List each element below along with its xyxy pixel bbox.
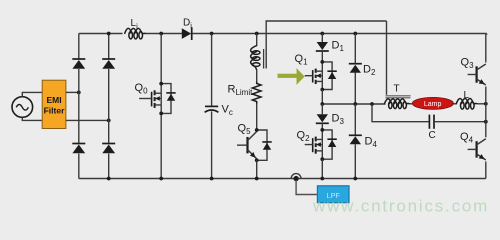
wire Vc bottom vertical [211,111,213,178]
node L / right leg [484,102,488,106]
arrow pointing to Q1 [278,68,305,85]
svg-text:L: L [464,90,470,101]
EMI Filter block [42,80,66,128]
node C / right leg [484,120,488,124]
top rail [79,33,487,35]
transistor Q2 [321,130,323,159]
node Q0 drain on rail [159,32,163,36]
transistor Q3 [476,66,478,82]
wire resistor to Q5 [256,104,258,131]
transistor Q0 [160,84,162,114]
diode D3 [321,104,323,114]
boost transformer core [263,49,265,69]
wire lamp to L [452,103,457,105]
wire Q0 source vertical [160,113,162,178]
diode D1 [321,34,323,43]
sense node with hump [291,174,301,182]
wire winding to resistor [256,69,258,81]
wire top line to transformer T [386,21,388,95]
AC source V_ac [12,97,33,118]
bottom rail nodes [107,177,111,181]
wire C to right leg [435,121,486,123]
right leg vertical top [485,34,488,63]
boost transformer winding [251,45,260,69]
transformer T core [386,95,411,97]
wire Vc top vertical [211,34,213,106]
svg-text:T: T [394,84,400,95]
bridge diode top-right [102,58,115,60]
wire Q1 source to mid rail [321,90,323,105]
wire Q0 drain vertical [160,34,162,84]
bridge diode bottom-left [72,143,85,145]
node D2 top [353,32,357,36]
inductor L [456,98,477,109]
capacitor C [429,115,436,141]
bridge right leg wire [108,34,110,179]
diode D4 [354,104,356,135]
right leg to bottom rail [485,162,487,179]
wire L to right leg [478,103,486,105]
inductor Li [125,28,146,39]
wire T to lamp [410,103,414,105]
node boost output [210,32,214,36]
transistor Q5 [246,137,248,153]
node bridge right AC input [107,119,111,123]
wire D1 to Q1 [321,51,323,62]
boost secondary wire to top line [266,21,386,69]
node boost winding top [255,32,259,36]
node top rail / bridge right [107,32,111,36]
bridge left leg wire [78,34,80,179]
svg-text:EMI: EMI [46,95,61,105]
right leg between Q3 and Q4 [485,87,487,138]
svg-text:www.cntronics.com: www.cntronics.com [312,197,489,216]
wire AC to EMI filter top [22,92,42,96]
resistor R_Limit [228,82,262,104]
mid rail (half-bridge output) [322,103,385,105]
bridge diode bottom-right [102,143,115,145]
LPF block [317,186,349,203]
node D1 top [320,32,324,36]
svg-text:Lamp: Lamp [424,101,442,108]
Lamp [412,97,453,109]
wire boost winding entry [256,34,258,47]
wire EMI out bottom to bridge [66,119,109,121]
wire Q5 to bottom rail [256,160,258,178]
svg-text:C: C [429,130,436,141]
svg-text:Filter: Filter [44,106,65,116]
wire AC to EMI filter bottom [22,117,42,120]
transformer T winding [384,99,410,109]
transistor Q4 [476,141,478,157]
node bridge left AC input [77,91,81,95]
bridge diode top-left [72,58,85,60]
bottom rail [79,178,486,180]
wire Q2 source to bottom rail [321,159,323,178]
wire C branch vertical from mid rail [372,104,429,122]
transistor Q1 [321,62,323,90]
diode D2 [354,34,356,64]
capacitor Vc [205,104,233,118]
wire EMI out top to bridge [66,91,79,93]
wire sense node to LPF [296,180,317,195]
diode Di [182,18,192,41]
